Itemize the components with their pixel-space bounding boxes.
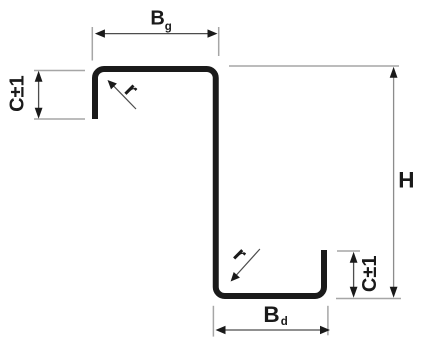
arrowhead C-right down xyxy=(350,287,358,298)
dimension line C-right xyxy=(353,260,355,290)
extension line Bg right xyxy=(218,27,220,56)
svg-text:B: B xyxy=(263,302,279,327)
arrowhead C-left down xyxy=(35,108,43,119)
extension line Bg left xyxy=(91,27,93,61)
extension line Bd right xyxy=(327,306,329,336)
dimension line C-left xyxy=(38,79,40,110)
arrowhead Bg right xyxy=(208,29,218,37)
arrowhead H up xyxy=(390,67,398,78)
arrowhead H down xyxy=(390,287,398,298)
dimension line H xyxy=(393,76,395,288)
extension line C-right top xyxy=(337,250,360,252)
svg-text:d: d xyxy=(281,316,288,328)
dimension line Bd xyxy=(224,329,321,331)
extension line C-left bottom xyxy=(34,118,85,120)
arrowhead Bd right xyxy=(320,326,330,334)
arrowhead Bd left xyxy=(216,326,226,334)
extension line bottom shared xyxy=(336,298,401,300)
dimension line Bg xyxy=(103,33,209,35)
extension line Bd left xyxy=(212,306,214,337)
arrowhead C-left up xyxy=(35,71,43,82)
svg-text:B: B xyxy=(150,8,164,30)
arrowhead C-right up xyxy=(350,252,358,263)
Z-profile outline xyxy=(95,69,324,296)
arrowhead Bg left xyxy=(95,29,105,37)
svg-text:C±1: C±1 xyxy=(359,256,381,293)
svg-text:g: g xyxy=(165,21,172,33)
svg-text:H: H xyxy=(398,168,414,193)
extension line H top xyxy=(229,65,399,67)
leader arrow r top xyxy=(110,83,136,109)
svg-text:C±1: C±1 xyxy=(6,75,28,112)
extension line C-left top xyxy=(34,70,85,72)
leader arrow r bottom xyxy=(233,249,260,279)
